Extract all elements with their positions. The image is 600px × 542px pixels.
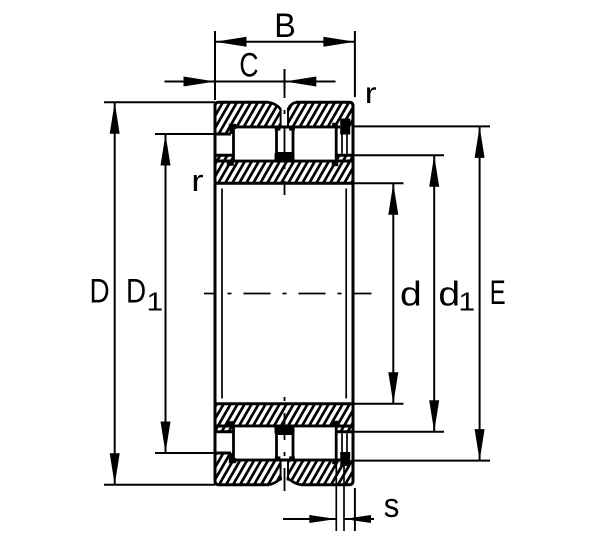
svg-text:E: E [490, 274, 506, 312]
svg-text:r: r [365, 77, 377, 110]
svg-text:1: 1 [146, 287, 163, 316]
svg-text:D: D [126, 272, 146, 310]
svg-text:d: d [400, 275, 422, 313]
svg-text:C: C [239, 46, 258, 84]
svg-text:D: D [89, 272, 109, 310]
svg-text:s: s [384, 486, 400, 525]
svg-text:d: d [438, 275, 460, 313]
svg-text:B: B [274, 7, 296, 45]
svg-text:r: r [191, 164, 203, 198]
svg-text:1: 1 [458, 287, 475, 316]
